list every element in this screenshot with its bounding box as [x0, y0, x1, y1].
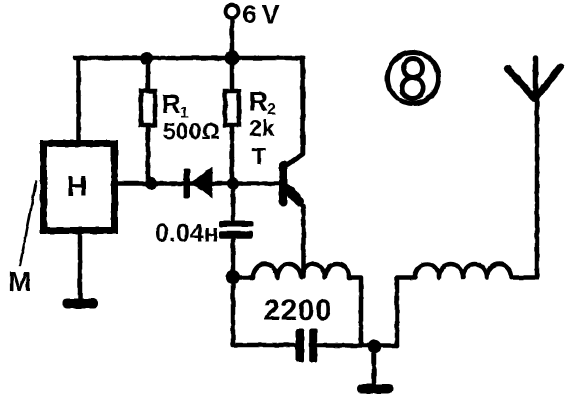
- svg-text:500Ω: 500Ω: [163, 118, 220, 144]
- svg-text:T: T: [252, 143, 266, 169]
- svg-text:0.04н: 0.04н: [155, 220, 219, 248]
- svg-text:R: R: [249, 87, 269, 117]
- svg-text:V: V: [262, 0, 280, 29]
- svg-text:R: R: [162, 89, 182, 119]
- svg-text:2200: 2200: [264, 294, 333, 327]
- svg-text:M: M: [8, 266, 31, 297]
- svg-text:6: 6: [243, 1, 257, 29]
- svg-text:H: H: [67, 171, 88, 203]
- svg-text:2k: 2k: [249, 115, 275, 141]
